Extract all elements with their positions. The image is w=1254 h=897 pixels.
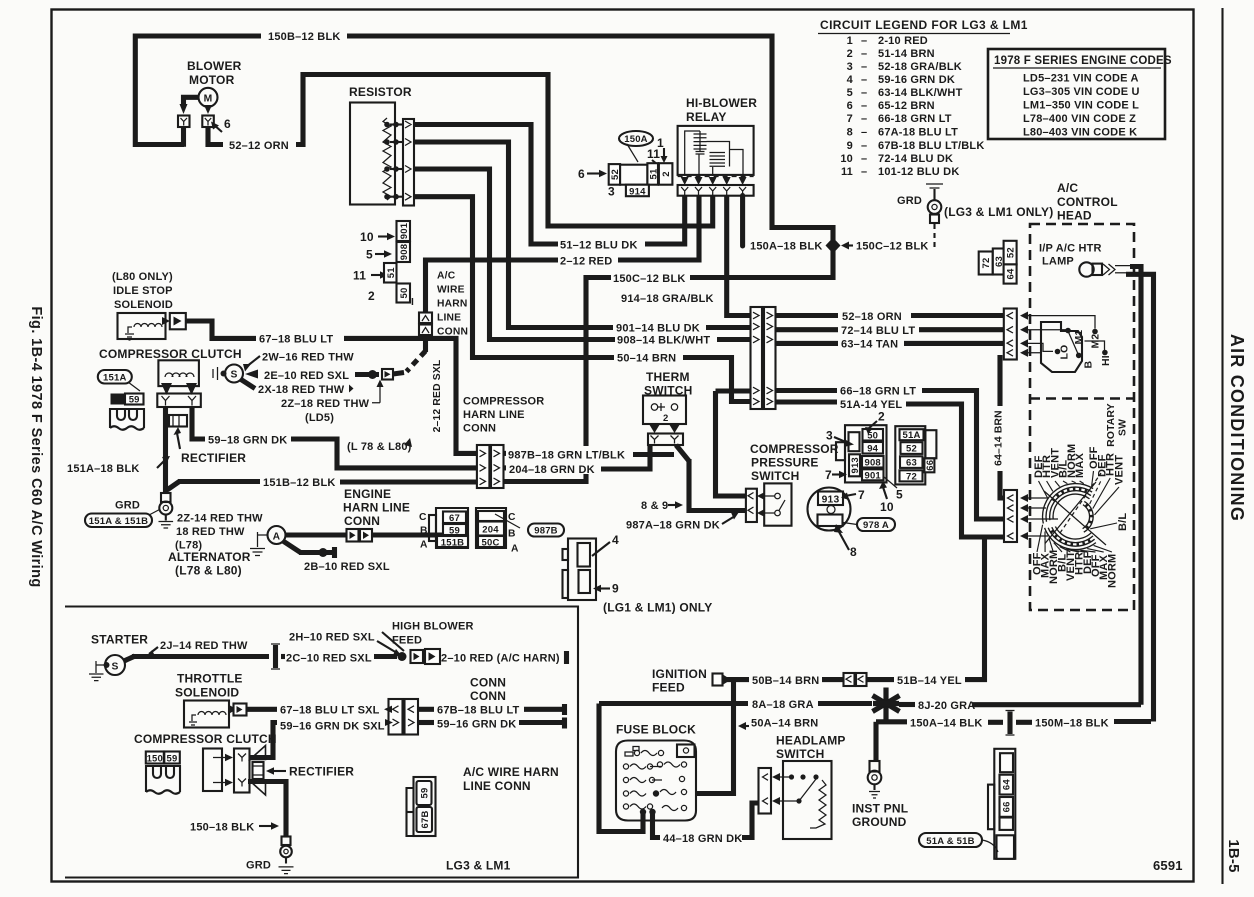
- svg-text:A/C: A/C: [437, 271, 456, 282]
- svg-text:I: I: [411, 297, 414, 308]
- 913 circle component: [808, 488, 851, 531]
- svg-text:51–12 BLU DK: 51–12 BLU DK: [560, 239, 638, 251]
- resistor element zigzag: [383, 118, 391, 200]
- svg-text:66: 66: [925, 460, 936, 471]
- wire 204-18 GRN DK: [504, 465, 507, 470]
- svg-text:908: 908: [399, 244, 410, 260]
- svg-text:I/P A/C HTR: I/P A/C HTR: [1039, 243, 1102, 255]
- svg-text:(LG1 & LM1) ONLY: (LG1 & LM1) ONLY: [603, 601, 712, 615]
- svg-text:59–16 GRN DK: 59–16 GRN DK: [437, 719, 516, 731]
- svg-text:2–12 RED SXL: 2–12 RED SXL: [432, 360, 443, 433]
- svg-text:GRD: GRD: [246, 860, 271, 872]
- svg-text:987A–18 GRN DK: 987A–18 GRN DK: [626, 520, 720, 532]
- svg-text:2H–10 RED SXL: 2H–10 RED SXL: [289, 632, 375, 644]
- bar junction: [273, 645, 278, 668]
- svg-text:151A–18 BLK: 151A–18 BLK: [67, 463, 140, 475]
- svg-text:2: 2: [847, 48, 853, 60]
- svg-text:B: B: [420, 526, 428, 537]
- wire lamp to right verticals: [1130, 267, 1141, 705]
- svg-text:STARTER: STARTER: [91, 633, 148, 647]
- svg-text:2: 2: [368, 289, 375, 303]
- 978A balloon: [857, 518, 895, 531]
- svg-text:Fig. 1B-4 1978 F Series C60 A/: Fig. 1B-4 1978 F Series C60 A/C Wiring: [28, 306, 44, 587]
- star junction: [873, 688, 900, 720]
- svg-text:67B-18 BLU LT/BLK: 67B-18 BLU LT/BLK: [878, 140, 984, 152]
- blower motor M: [199, 88, 218, 107]
- svg-text:11: 11: [353, 269, 366, 283]
- svg-text:101-12 BLU DK: 101-12 BLU DK: [878, 166, 959, 178]
- svg-text:HIGH BLOWER: HIGH BLOWER: [392, 621, 474, 633]
- svg-text:A: A: [273, 531, 281, 542]
- svg-text:IGNITION: IGNITION: [652, 667, 707, 681]
- fuse block body: [616, 741, 696, 821]
- svg-text:CONN: CONN: [463, 423, 496, 435]
- 987B balloon: [528, 524, 564, 537]
- svg-text:51A & 51B: 51A & 51B: [926, 836, 974, 847]
- high blower feed conn boxes: [411, 650, 424, 663]
- svg-text:63: 63: [906, 458, 917, 469]
- svg-text:59–18 GRN DK: 59–18 GRN DK: [208, 434, 287, 446]
- svg-text:(LD5): (LD5): [305, 412, 334, 424]
- control head conn strip: [1004, 309, 1017, 360]
- svg-text:94: 94: [867, 444, 878, 455]
- svg-text:SWITCH: SWITCH: [776, 747, 825, 761]
- svg-text:66: 66: [1002, 801, 1013, 812]
- 59/67B connector lower: [414, 777, 436, 836]
- pressure switch body: [764, 483, 791, 525]
- svg-text:–: –: [861, 35, 867, 47]
- svg-text:51A-14 YEL: 51A-14 YEL: [840, 399, 902, 411]
- svg-text:(LG3 & LM1 ONLY): (LG3 & LM1 ONLY): [944, 205, 1053, 219]
- svg-text:MAX: MAX: [1074, 452, 1086, 478]
- headlamp conn strip: [759, 768, 772, 814]
- rotary switch lines to arcs: [1028, 498, 1058, 536]
- svg-text:2: 2: [661, 171, 672, 176]
- therm Y strip: [648, 434, 683, 446]
- svg-text:2E–10 RED SXL: 2E–10 RED SXL: [264, 370, 349, 382]
- therm switch box: [643, 396, 686, 425]
- svg-text:M1: M1: [1074, 330, 1085, 345]
- svg-text:CONN: CONN: [470, 676, 506, 690]
- starter ground: [96, 661, 104, 673]
- svg-text:CONN: CONN: [437, 327, 468, 338]
- svg-text:67A-18 BLU LT: 67A-18 BLU LT: [878, 127, 958, 139]
- svg-text:–: –: [861, 113, 867, 125]
- svg-text:987B–18 GRN LT/BLK: 987B–18 GRN LT/BLK: [508, 450, 625, 462]
- svg-text:150A–18 BLK: 150A–18 BLK: [750, 241, 823, 253]
- wire 44-18 GRN DK: [653, 812, 661, 838]
- svg-text:(L 78 & L80): (L 78 & L80): [347, 441, 412, 453]
- svg-text:GRD: GRD: [115, 500, 140, 512]
- svg-text:SW: SW: [1118, 419, 1129, 436]
- svg-text:FUSE BLOCK: FUSE BLOCK: [616, 723, 696, 737]
- svg-text:64: 64: [1006, 268, 1017, 279]
- svg-text:913: 913: [822, 494, 840, 505]
- svg-text:2X-18 RED THW: 2X-18 RED THW: [258, 384, 345, 396]
- relay internals: [685, 131, 700, 176]
- svg-text:2Z-14 RED THW: 2Z-14 RED THW: [177, 512, 263, 524]
- wire 51A-14 YEL: [776, 399, 838, 404]
- 2X-18 RED THW: [241, 380, 255, 389]
- svg-text:–: –: [861, 87, 867, 99]
- wire 50B-14 BRN: [723, 675, 731, 685]
- svg-text:66-18 GRN LT: 66-18 GRN LT: [878, 113, 952, 125]
- svg-text:LM1–350 VIN CODE L: LM1–350 VIN CODE L: [1023, 100, 1139, 112]
- wire 8J-20 GRA: [899, 702, 915, 707]
- fuse block feed loop: [599, 704, 643, 832]
- svg-text:50–14 BRN: 50–14 BRN: [617, 353, 676, 365]
- svg-text:7: 7: [825, 468, 832, 482]
- svg-text:10: 10: [360, 230, 374, 244]
- engine codes box: [988, 49, 1165, 139]
- svg-text:THROTTLE: THROTTLE: [177, 672, 243, 686]
- svg-text:CONTROL: CONTROL: [1057, 195, 1118, 209]
- wire resistor pin4 to 50-14 BRN: [414, 197, 614, 358]
- svg-text:52: 52: [1006, 247, 1017, 258]
- svg-text:3: 3: [608, 185, 615, 199]
- resistor box: [350, 103, 395, 205]
- 51A & 51B connector: [994, 749, 1015, 859]
- svg-text:52–12 ORN: 52–12 ORN: [229, 140, 289, 152]
- svg-text:B: B: [1084, 361, 1095, 369]
- inst pnl ground wire 150A-14 BLK: [873, 722, 878, 762]
- svg-text:HARN: HARN: [437, 299, 468, 310]
- svg-text:1: 1: [847, 35, 853, 47]
- svg-text:52–18 ORN: 52–18 ORN: [842, 311, 902, 323]
- svg-text:HEADLAMP: HEADLAMP: [776, 734, 846, 748]
- wire 150B-12 BLK top: [135, 36, 261, 145]
- svg-text:B: B: [508, 529, 516, 540]
- inst pnl ground terminal: [870, 761, 880, 772]
- svg-text:150B–12 BLK: 150B–12 BLK: [268, 31, 341, 43]
- svg-text:IDLE STOP: IDLE STOP: [113, 285, 173, 297]
- wire 987B-18 GRN LT/BLK: [504, 451, 507, 456]
- svg-text:67–18 BLU LT: 67–18 BLU LT: [259, 334, 333, 346]
- wire 50A-14 BRN vertical: [696, 681, 734, 794]
- svg-text:67: 67: [449, 513, 460, 524]
- svg-text:67B: 67B: [420, 810, 431, 828]
- svg-text:1B-5: 1B-5: [1225, 839, 1242, 872]
- wire below conn to S junction (2 RED SXL dashed): [423, 335, 428, 352]
- clutch coil box: [158, 360, 199, 386]
- 72/63/52/64 box cluster: [979, 252, 993, 275]
- wire relay pin5 stub 150A-18 BLK: [740, 196, 745, 247]
- wire 151A-18 BLK clutch ground: [163, 407, 168, 493]
- svg-text:–: –: [861, 140, 867, 152]
- pressure switch conn strip: [746, 489, 757, 522]
- svg-text:LD5–231 VIN CODE A: LD5–231 VIN CODE A: [1023, 73, 1139, 85]
- svg-text:THERM: THERM: [646, 370, 690, 384]
- 150/59 boxes: [146, 752, 164, 764]
- svg-text:ALTERNATOR: ALTERNATOR: [168, 550, 251, 564]
- compressor harn line conn columns: [477, 445, 490, 488]
- motor terminal 2: [202, 116, 214, 128]
- A/C wire harn line conn boxes: [419, 313, 432, 324]
- ignition terminal box: [713, 674, 723, 686]
- wire 59-18 GRN DK from clutch: [192, 407, 205, 439]
- svg-text:5: 5: [896, 488, 903, 502]
- svg-text:72-14 BLU DK: 72-14 BLU DK: [878, 153, 953, 165]
- svg-text:204–18 GRN DK: 204–18 GRN DK: [509, 464, 595, 476]
- svg-text:50: 50: [399, 288, 410, 299]
- svg-text:4: 4: [847, 74, 854, 86]
- tall two-column connector: [751, 307, 763, 409]
- svg-text:51: 51: [386, 267, 397, 278]
- svg-text:5: 5: [847, 87, 853, 99]
- svg-text:SWITCH: SWITCH: [751, 469, 800, 483]
- fuse rows: [623, 750, 686, 810]
- 151A balloon: [98, 370, 132, 384]
- svg-text:52-18 GRA/BLK: 52-18 GRA/BLK: [878, 61, 962, 73]
- conn conn connector pair: [389, 699, 403, 735]
- svg-text:COMPRESSOR: COMPRESSOR: [463, 396, 544, 408]
- svg-text:150C–12 BLK: 150C–12 BLK: [856, 241, 929, 253]
- bottom section divider: [65, 607, 578, 878]
- diode triangles: [250, 746, 266, 760]
- wire 8A-18 GRA: [599, 701, 748, 706]
- svg-text:44–18 GRN DK: 44–18 GRN DK: [663, 833, 742, 845]
- svg-text:HEAD: HEAD: [1057, 209, 1092, 223]
- wire 2B-10 RED SXL: [283, 541, 301, 553]
- svg-text:M: M: [204, 94, 213, 105]
- lamp symbol: [1079, 262, 1093, 276]
- svg-text:FEED: FEED: [652, 681, 685, 695]
- svg-text:2Z–18 RED THW: 2Z–18 RED THW: [281, 398, 370, 410]
- svg-text:8J-20 GRA: 8J-20 GRA: [918, 700, 975, 712]
- svg-text:BLOWER: BLOWER: [187, 59, 242, 73]
- hi-blower relay box: [678, 126, 754, 175]
- rotary leader lines: [1037, 471, 1119, 552]
- svg-text:SOLENOID: SOLENOID: [114, 299, 173, 311]
- wire 59-16 GRN DK right: [418, 720, 434, 725]
- svg-text:8 & 9: 8 & 9: [641, 500, 668, 512]
- svg-text:LAMP: LAMP: [1042, 256, 1074, 268]
- svg-text:150–18 BLK: 150–18 BLK: [190, 822, 254, 834]
- svg-text:150: 150: [147, 753, 163, 764]
- svg-text:51A: 51A: [902, 430, 920, 441]
- svg-text:2–12 RED: 2–12 RED: [560, 255, 612, 267]
- svg-text:CONN: CONN: [344, 514, 380, 528]
- rectifier box lower: [253, 762, 264, 779]
- svg-text:978 A: 978 A: [863, 520, 889, 531]
- svg-text:8: 8: [847, 127, 853, 139]
- LG1 LM1 connector: [568, 539, 596, 601]
- blower switch wiring: [1028, 316, 1095, 353]
- wire therm to 987A: [676, 445, 689, 461]
- svg-text:COMPRESSOR CLUTCH: COMPRESSOR CLUTCH: [134, 732, 277, 746]
- relay pin strip: [678, 185, 754, 196]
- svg-text:LO: LO: [1060, 345, 1071, 360]
- wire resistor pin3 to 908-14 BLK/WHT: [414, 169, 615, 340]
- rectifier box upper: [169, 415, 187, 427]
- relay left connector: 150A balloon: [619, 131, 653, 146]
- svg-text:WIRE: WIRE: [437, 285, 465, 296]
- svg-text:CONN: CONN: [470, 689, 506, 703]
- svg-text:–: –: [861, 166, 867, 178]
- throttle solenoid box: [184, 701, 229, 728]
- rotary sw conn strip: [1004, 490, 1017, 542]
- svg-text:8A–18 GRA: 8A–18 GRA: [752, 699, 814, 711]
- svg-text:–: –: [861, 127, 867, 139]
- svg-text:59-16 GRN DK: 59-16 GRN DK: [878, 74, 955, 86]
- alternator ground: [258, 532, 268, 547]
- wire 51B-14 YEL: [867, 677, 895, 682]
- svg-text:L78–400 VIN CODE Z: L78–400 VIN CODE Z: [1023, 113, 1136, 125]
- svg-text:151B–12 BLK: 151B–12 BLK: [263, 477, 336, 489]
- rotary labels bottom row: [1032, 550, 1119, 588]
- svg-text:59: 59: [420, 788, 431, 799]
- svg-text:914–18 GRA/BLK: 914–18 GRA/BLK: [621, 293, 714, 305]
- svg-text:LINE CONN: LINE CONN: [463, 779, 531, 793]
- relay pin dashes and arrows: [678, 176, 754, 178]
- svg-text:PRESSURE: PRESSURE: [751, 456, 819, 470]
- clutch coil down arrows: [161, 383, 172, 395]
- svg-text:72: 72: [981, 258, 992, 269]
- svg-text:RESISTOR: RESISTOR: [349, 85, 412, 99]
- wire 67-18 BLU LT SXL: [247, 707, 278, 712]
- svg-text:51B–14 YEL: 51B–14 YEL: [897, 675, 962, 687]
- svg-text:914: 914: [629, 186, 646, 197]
- svg-text:901: 901: [399, 222, 410, 239]
- svg-text:150A–14 BLK: 150A–14 BLK: [910, 717, 983, 729]
- svg-text:2: 2: [878, 410, 885, 424]
- 51A & 51B balloon: [919, 833, 982, 847]
- svg-text:6: 6: [847, 100, 853, 112]
- idle stop conn box: [170, 313, 186, 329]
- svg-text:11: 11: [647, 147, 660, 161]
- svg-text:9: 9: [847, 140, 853, 152]
- svg-text:A/C WIRE HARN: A/C WIRE HARN: [463, 765, 559, 779]
- svg-text:7: 7: [858, 488, 865, 502]
- svg-text:A/C: A/C: [1057, 181, 1078, 195]
- junction diamond: [826, 238, 841, 254]
- svg-text:S: S: [230, 370, 237, 381]
- svg-text:3: 3: [847, 61, 853, 73]
- svg-text:65-12 BRN: 65-12 BRN: [878, 100, 935, 112]
- svg-text:2: 2: [663, 413, 668, 424]
- svg-text:RELAY: RELAY: [686, 110, 727, 124]
- S junction splice: [225, 365, 243, 383]
- ground symbol: [165, 515, 167, 521]
- wire relay pin4 down (914-18 GRA/BLK): [727, 196, 751, 316]
- svg-text:COMPRESSOR: COMPRESSOR: [750, 442, 839, 456]
- svg-text:6: 6: [578, 167, 585, 181]
- legend rows: [840, 35, 984, 178]
- wire 64-14 BRN: [997, 355, 1002, 406]
- svg-text:151A: 151A: [103, 373, 127, 384]
- svg-text:50C: 50C: [481, 537, 499, 548]
- svg-text:913: 913: [850, 457, 861, 473]
- wire 52-12 ORN: [208, 127, 223, 145]
- svg-text:A: A: [511, 544, 519, 555]
- svg-text:L80–403 VIN CODE K: L80–403 VIN CODE K: [1023, 127, 1137, 139]
- control head dashed box: [1030, 224, 1134, 610]
- starter S: [105, 655, 125, 675]
- svg-text:2-10 RED: 2-10 RED: [878, 35, 928, 47]
- motor lead right arrow: [204, 105, 212, 114]
- svg-text:LG3–305 VIN CODE U: LG3–305 VIN CODE U: [1023, 86, 1140, 98]
- svg-text:908–14 BLK/WHT: 908–14 BLK/WHT: [617, 335, 710, 347]
- svg-text:(L80 ONLY): (L80 ONLY): [112, 271, 173, 283]
- clutch box lower: [203, 749, 222, 792]
- svg-text:HI: HI: [1101, 355, 1112, 366]
- svg-text:7: 7: [847, 113, 853, 125]
- svg-text:66–18 GRN LT: 66–18 GRN LT: [840, 385, 916, 397]
- svg-text:–: –: [861, 153, 867, 165]
- idle stop solenoid box: [118, 313, 166, 339]
- rotary labels top row: [1033, 444, 1129, 531]
- svg-text:59: 59: [449, 525, 460, 536]
- wire junction down to 150C run: [690, 251, 833, 278]
- 59 connector boxes: [111, 394, 126, 405]
- svg-text:AIR CONDITIONING: AIR CONDITIONING: [1227, 334, 1247, 522]
- svg-text:2J–14 RED THW: 2J–14 RED THW: [160, 640, 248, 652]
- svg-text:11: 11: [841, 166, 853, 178]
- blower switch body: [1041, 322, 1082, 372]
- wire 63-14 TAN: [776, 341, 839, 346]
- svg-text:901: 901: [864, 471, 881, 482]
- wire 52-18 ORN: [776, 313, 839, 318]
- svg-text:5: 5: [366, 248, 373, 262]
- terminal leads down: [181, 127, 186, 147]
- wire 66-18 GRN LT: [776, 388, 838, 393]
- svg-text:VENT: VENT: [1114, 455, 1126, 485]
- svg-text:–: –: [861, 100, 867, 112]
- svg-text:2–10 RED (A/C HARN): 2–10 RED (A/C HARN): [441, 653, 560, 665]
- svg-text:RECTIFIER: RECTIFIER: [289, 765, 354, 779]
- svg-text:S: S: [111, 661, 118, 672]
- svg-text:63-14 BLK/WHT: 63-14 BLK/WHT: [878, 87, 963, 99]
- svg-text:64: 64: [1002, 779, 1013, 790]
- svg-text:8: 8: [850, 545, 857, 559]
- svg-text:52: 52: [906, 444, 917, 455]
- page edge line: [1221, 8, 1223, 884]
- svg-text:150C–12 BLK: 150C–12 BLK: [613, 273, 686, 285]
- svg-text:M2: M2: [1091, 334, 1102, 349]
- wire resistor pin2 to 901-14 BLU DK: [414, 142, 613, 328]
- motor terminal 1: [178, 116, 190, 128]
- ground ring lower: [282, 837, 291, 846]
- motor lead left: [184, 97, 200, 105]
- svg-text:51-14 BRN: 51-14 BRN: [878, 48, 935, 60]
- svg-text:151B: 151B: [441, 537, 465, 548]
- svg-text:HARN LINE: HARN LINE: [343, 501, 410, 515]
- arrows into rotary conn: [1020, 494, 1028, 502]
- svg-text:67B–18 BLU LT: 67B–18 BLU LT: [437, 705, 520, 717]
- svg-text:NORM: NORM: [1106, 554, 1118, 588]
- svg-text:204: 204: [482, 525, 499, 536]
- clutch Y strip: [157, 394, 201, 408]
- svg-text:10: 10: [840, 153, 853, 165]
- 2E-10 RED SXL wire: [245, 370, 258, 379]
- svg-text:RECTIFIER: RECTIFIER: [181, 451, 246, 465]
- svg-text:4: 4: [612, 533, 619, 547]
- conn cluster 51A/52/63/72 66: [895, 426, 925, 484]
- svg-text:(L78 & L80): (L78 & L80): [175, 564, 242, 578]
- throttle conn box: [229, 705, 237, 714]
- (151A & 151B) balloon: [85, 514, 152, 528]
- svg-text:987B: 987B: [534, 526, 558, 537]
- svg-text:901–14 BLU DK: 901–14 BLU DK: [616, 323, 700, 335]
- svg-text:C: C: [419, 512, 427, 523]
- svg-text:64–14 BRN: 64–14 BRN: [994, 410, 1005, 466]
- wire starter to junction: [124, 656, 135, 661]
- headlamp switch box: [783, 761, 832, 839]
- svg-text:GROUND: GROUND: [852, 815, 907, 829]
- svg-text:GRD: GRD: [897, 195, 922, 207]
- svg-text:–: –: [861, 48, 867, 60]
- wire clutch to ground 150-18 BLK: [248, 782, 286, 837]
